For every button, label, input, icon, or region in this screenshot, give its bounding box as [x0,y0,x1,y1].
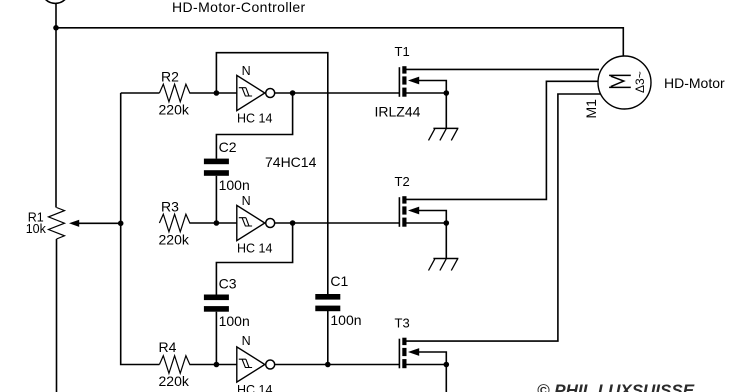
svg-text:HD-Motor: HD-Motor [664,75,725,91]
motor M1 circle [598,56,651,109]
capacitor C3 plates [204,295,229,301]
junction stage3 output / C1 [325,362,331,368]
svg-text:HD-Motor-Controller: HD-Motor-Controller [172,0,306,15]
svg-text:100n: 100n [219,313,250,329]
inverter U1B output bubble [266,219,275,228]
resistor R2 [159,84,189,102]
transistor T2 channel bars [402,196,406,203]
wire: R3 right lead [189,222,236,224]
svg-text:T3: T3 [395,316,410,331]
transistor T3 body arrow [408,348,419,356]
svg-text:C1: C1 [330,273,348,289]
transistor T2 body arrow [408,207,419,215]
svg-text:100n: 100n [219,177,250,193]
svg-text:T2: T2 [395,174,410,189]
wire: left feedback bus vertical [121,93,160,365]
capacitor C2 plates [204,159,229,165]
wire: stage3 output to T3 gate [275,364,400,366]
wire: stage1 output down to C2 [216,93,292,159]
junction T3 source [444,362,450,368]
wire: left main vertical rail from terminal to R1 [55,3,57,207]
wire: T2 source to ground [445,223,447,259]
svg-text:R4: R4 [159,339,177,355]
ground GND2 [433,258,458,260]
wire: R4 right lead [189,364,236,366]
wire: T1 source to ground [445,93,447,128]
svg-text:N: N [242,64,251,78]
svg-text:IRLZ44: IRLZ44 [375,104,421,120]
wire: stage2 output down to C3 [216,223,292,295]
transistor T1 gate bar [398,67,400,97]
svg-text:Δ3~: Δ3~ [633,71,647,93]
svg-text:100n: 100n [330,312,361,328]
transistor T3 source lead [407,364,447,366]
junction stage1 output [290,90,296,96]
wire: feedback top route to C1 [216,53,327,294]
inverter U1B triangle [237,205,265,240]
wire: T1 drain to motor [407,68,600,70]
svg-text:M1: M1 [583,99,599,119]
transistor T1 source lead [407,92,447,94]
wire: stage1 output to T1 gate [275,92,400,94]
inverter U1A hysteresis symbol [239,88,252,96]
wire: C3 bottom to stage3 input [215,312,217,365]
junction stage2 output [290,220,296,226]
wire: below R1 to bottom edge [56,239,58,392]
inverter U1C triangle [237,347,265,382]
transistor T1 channel bars [402,66,406,73]
wire: C2 bottom to stage2 input [215,176,217,223]
svg-text:74HC14: 74HC14 [265,154,317,170]
inverter U1C hysteresis symbol [239,359,252,367]
power terminal circle (cut off at top) [41,0,69,3]
inverter U1B hysteresis symbol [239,218,252,226]
motor M glyph (rotated M) [609,75,631,87]
junction stage2 input [214,220,220,226]
inverter U1A triangle [237,75,265,110]
junction T2 source [444,220,450,226]
svg-text:N: N [242,194,251,208]
svg-text:R3: R3 [161,199,179,215]
svg-text:10k: 10k [26,222,47,236]
svg-text:220k: 220k [159,232,190,248]
wire: top supply rail [56,28,623,56]
svg-text:N: N [242,334,251,348]
svg-text:HC 14: HC 14 [237,242,272,256]
svg-text:220k: 220k [159,373,190,389]
junction top rail tap [53,25,59,31]
potentiometer R1 zigzag [49,208,65,240]
wire: R2 right lead to inverter input [189,92,236,94]
svg-text:HC 14: HC 14 [237,112,272,126]
wire: C1 bottom to stage3 output [327,310,329,364]
wire: T3 source down off page [445,365,447,392]
transistor T3 gate bar [398,339,400,369]
junction stage1 input [214,90,220,96]
inverter U1A output bubble [266,89,275,98]
transistor T3 channel bars [402,338,406,345]
resistor R4 [159,356,189,374]
svg-text:C2: C2 [219,139,237,155]
R1 wiper arrow [69,220,79,227]
svg-text:220k: 220k [159,102,190,118]
transistor T2 source lead [407,222,447,224]
wire: stage2 output to T2 gate [275,222,400,224]
svg-text:T1: T1 [395,44,410,59]
capacitor C1 plates [315,294,340,300]
junction bus / wiper [118,221,124,227]
transistor T1 body arrow [408,77,419,85]
svg-text:R2: R2 [161,69,179,85]
svg-text:HC 14: HC 14 [237,383,272,392]
resistor R3 [159,214,189,232]
wire: R2 left lead [121,92,160,94]
inverter U1C output bubble [266,360,275,369]
svg-text:C3: C3 [219,276,237,292]
wire: T2 drain to motor [407,81,599,199]
wire: T3 drain to motor [407,94,601,341]
junction stage3 input [214,362,220,368]
junction T1 source [444,90,450,96]
transistor T2 gate bar [398,197,400,227]
svg-text:© PHIL.LUXSUISSE: © PHIL.LUXSUISSE [537,381,695,392]
ground GND1 [433,127,458,129]
